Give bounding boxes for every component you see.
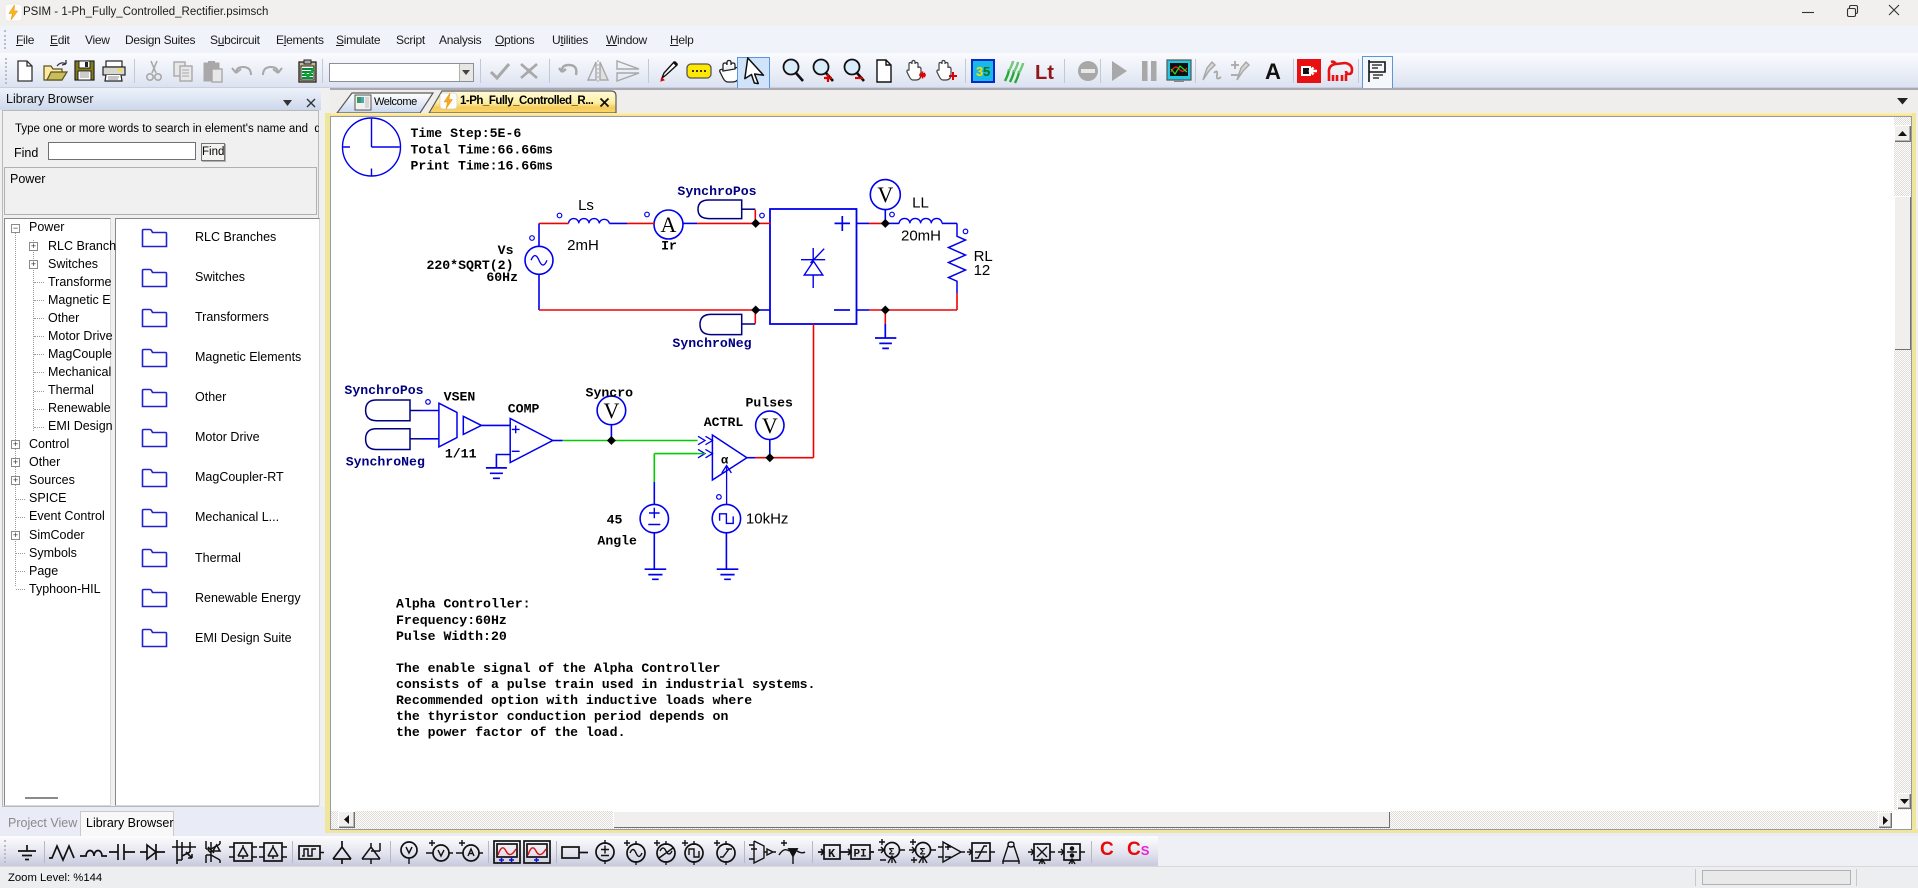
svg-text:Lt: Lt xyxy=(1035,62,1054,84)
svg-text:A: A xyxy=(661,212,677,237)
svg-text:Total Time:66.66ms: Total Time:66.66ms xyxy=(411,143,554,158)
svg-text:Alpha Controller:: Alpha Controller: xyxy=(396,597,531,612)
svg-text:60Hz: 60Hz xyxy=(486,270,518,285)
svg-text:10kHz: 10kHz xyxy=(746,511,789,528)
svg-text:V: V xyxy=(603,398,619,423)
svg-text:Time Step:5E-6: Time Step:5E-6 xyxy=(411,126,522,141)
svg-text:5: 5 xyxy=(983,64,990,79)
svg-text:Syncro: Syncro xyxy=(586,385,634,400)
svg-text:V: V xyxy=(877,182,893,207)
svg-text:Print Time:16.66ms: Print Time:16.66ms xyxy=(411,159,554,174)
svg-text:K: K xyxy=(828,847,836,861)
svg-text:SynchroNeg: SynchroNeg xyxy=(672,336,751,351)
svg-text:LL: LL xyxy=(912,195,929,212)
svg-text:Angle: Angle xyxy=(597,534,637,549)
svg-text:VSEN: VSEN xyxy=(444,389,476,404)
svg-text:consists of a pulse train used: consists of a pulse train used in indust… xyxy=(396,677,815,692)
svg-text:2mH: 2mH xyxy=(567,237,599,254)
svg-text:Frequency:60Hz: Frequency:60Hz xyxy=(396,613,507,628)
svg-text:ACTRL: ACTRL xyxy=(704,415,744,430)
svg-text:12: 12 xyxy=(974,262,991,279)
svg-text:Ls: Ls xyxy=(578,197,594,214)
svg-text:Pulse Width:20: Pulse Width:20 xyxy=(396,629,507,644)
svg-text:Pulses: Pulses xyxy=(745,396,793,411)
svg-text:20mH: 20mH xyxy=(901,228,941,245)
svg-text:SynchroNeg: SynchroNeg xyxy=(346,454,425,469)
svg-text:Ir: Ir xyxy=(661,239,677,254)
svg-text:A: A xyxy=(1265,59,1281,84)
svg-text:α: α xyxy=(721,454,729,468)
svg-text:V: V xyxy=(762,413,778,438)
svg-text:COMP: COMP xyxy=(508,401,540,416)
svg-text:SynchroPos: SynchroPos xyxy=(677,184,756,199)
svg-text:45: 45 xyxy=(607,513,623,528)
svg-text:The enable signal of the Alpha: The enable signal of the Alpha Controlle… xyxy=(396,661,720,676)
svg-text:the thyristor conduction perio: the thyristor conduction period depends … xyxy=(396,709,728,724)
svg-text:SynchroPos: SynchroPos xyxy=(344,383,423,398)
svg-text:Vs: Vs xyxy=(498,243,514,258)
svg-text:the power factor of the load.: the power factor of the load. xyxy=(396,725,626,740)
svg-text:1/11: 1/11 xyxy=(445,447,477,462)
svg-text:Σ: Σ xyxy=(920,848,926,859)
svg-text:Recommended option with induct: Recommended option with inductive loads … xyxy=(396,693,752,708)
svg-text:Σ: Σ xyxy=(889,848,895,859)
svg-text:PI: PI xyxy=(854,849,867,861)
